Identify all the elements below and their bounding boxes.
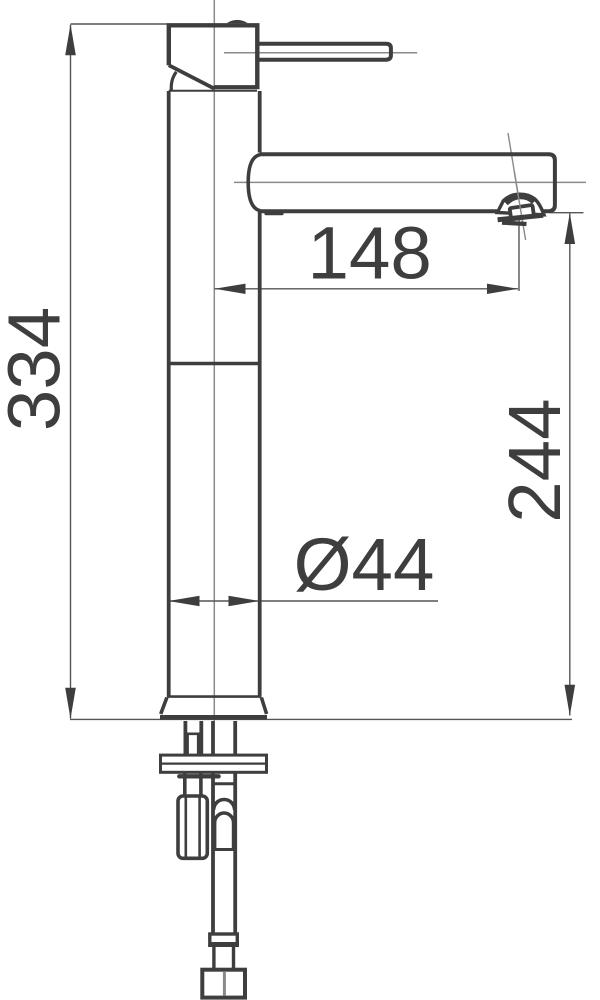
head cap top button bump: [227, 20, 249, 23]
extension line top for 244: [550, 212, 584, 214]
svg-text:Ø44: Ø44: [294, 523, 435, 606]
spout outline: [260, 154, 555, 211]
body right edge upper: [258, 91, 262, 153]
mounting stud left pair: [183, 721, 187, 755]
spout weld mark: [266, 212, 282, 215]
head cap diagonal: [169, 65, 214, 88]
head cap bottom edge: [214, 85, 260, 89]
washer flange: [161, 755, 267, 772]
dimension line 244: [569, 214, 571, 716]
centerline spout axis: [234, 181, 586, 183]
body seam line: [169, 362, 260, 365]
svg-text:334: 334: [0, 307, 76, 431]
dimension line 334: [70, 25, 72, 719]
arrow 148 right: [487, 284, 518, 294]
bracket bar under washer: [179, 774, 218, 778]
arrow 244 up: [565, 213, 576, 244]
stud continue below washer: [183, 773, 187, 797]
hose channel tube upper: [211, 721, 215, 755]
hose end tube: [212, 947, 215, 970]
base skirt top line: [167, 695, 262, 698]
aerator dome: [497, 194, 544, 215]
hose end nut mid line: [223, 972, 226, 996]
body left edge: [167, 91, 171, 696]
lever handle rod: [256, 44, 391, 60]
hose end nut: [202, 970, 245, 998]
aerator bottom bar: [498, 215, 544, 220]
aerator axis diagonal over: [514, 171, 522, 222]
arrow 334 down: [65, 688, 76, 719]
arrow 148 left: [215, 284, 246, 294]
centerline lever axis: [224, 52, 417, 54]
hose end collar: [210, 934, 238, 945]
extension line right of aerator for 148: [518, 220, 520, 292]
aerator lower bar: [502, 223, 527, 224]
dimension line 148: [214, 288, 518, 290]
body top edge: [169, 90, 257, 92]
hose end collar bottom thick: [210, 942, 238, 947]
base skirt left slant: [161, 698, 167, 715]
arrow dia44 right: [229, 596, 260, 606]
svg-text:148: 148: [308, 212, 432, 295]
arrow dia44 left: [169, 596, 200, 606]
hose outer walls: [211, 773, 215, 936]
knurled nut facet lines: [185, 798, 188, 857]
aerator outlet: [510, 205, 534, 219]
extension line sink surface: [70, 718, 572, 720]
dimension line diameter 44: [168, 600, 438, 602]
arrow 244 down: [565, 685, 576, 716]
mounting stud inner rect: [188, 734, 199, 755]
head cap front arc: [171, 72, 176, 91]
head cap outline: [169, 25, 257, 87]
hose collar line: [213, 782, 235, 785]
washer mid line: [161, 762, 267, 764]
body right edge lower: [258, 211, 262, 696]
base skirt right slant: [261, 698, 266, 715]
base skirt bottom bar: [160, 715, 267, 720]
hose arch 1: [214, 800, 235, 810]
extension line top for 334: [71, 23, 168, 25]
svg-text:244: 244: [493, 398, 576, 522]
spout left end cap arc: [248, 155, 260, 211]
centerline aerator axis diagonal: [508, 133, 526, 240]
knurled nut: [178, 796, 207, 858]
hose capsule bottom line: [215, 848, 234, 851]
hose arch capsule: [215, 813, 234, 850]
centerline vertical body axis: [213, 0, 215, 721]
arrow 334 up: [65, 24, 76, 55]
aerator crest: [506, 196, 534, 203]
